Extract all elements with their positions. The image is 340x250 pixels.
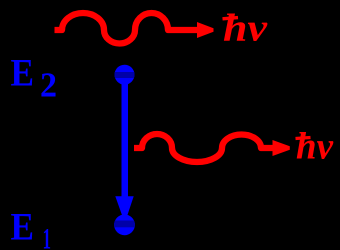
incident photon label h-bar nu [223, 7, 268, 50]
transition arrowhead (down) [115, 196, 133, 223]
svg-text:hν: hν [223, 7, 268, 50]
svg-text:E: E [11, 206, 35, 249]
label E1 (lower energy level) [11, 206, 52, 250]
emitted photon arrowhead [273, 140, 290, 156]
emitted photon label h-bar nu [296, 126, 335, 168]
incident photon wavy arrow (top) [55, 13, 199, 43]
label E2 (upper energy level) [11, 52, 58, 105]
emitted photon wavy arrow (middle) [134, 134, 273, 162]
upper electron dot [112, 65, 137, 85]
svg-text:hν: hν [296, 126, 334, 168]
lower electron dot [112, 214, 138, 235]
svg-text:2: 2 [40, 66, 57, 105]
incident photon arrowhead [197, 22, 214, 38]
svg-text:E: E [11, 52, 35, 95]
svg-text:1: 1 [43, 223, 52, 250]
transition line (E2 to E1) [122, 83, 129, 197]
